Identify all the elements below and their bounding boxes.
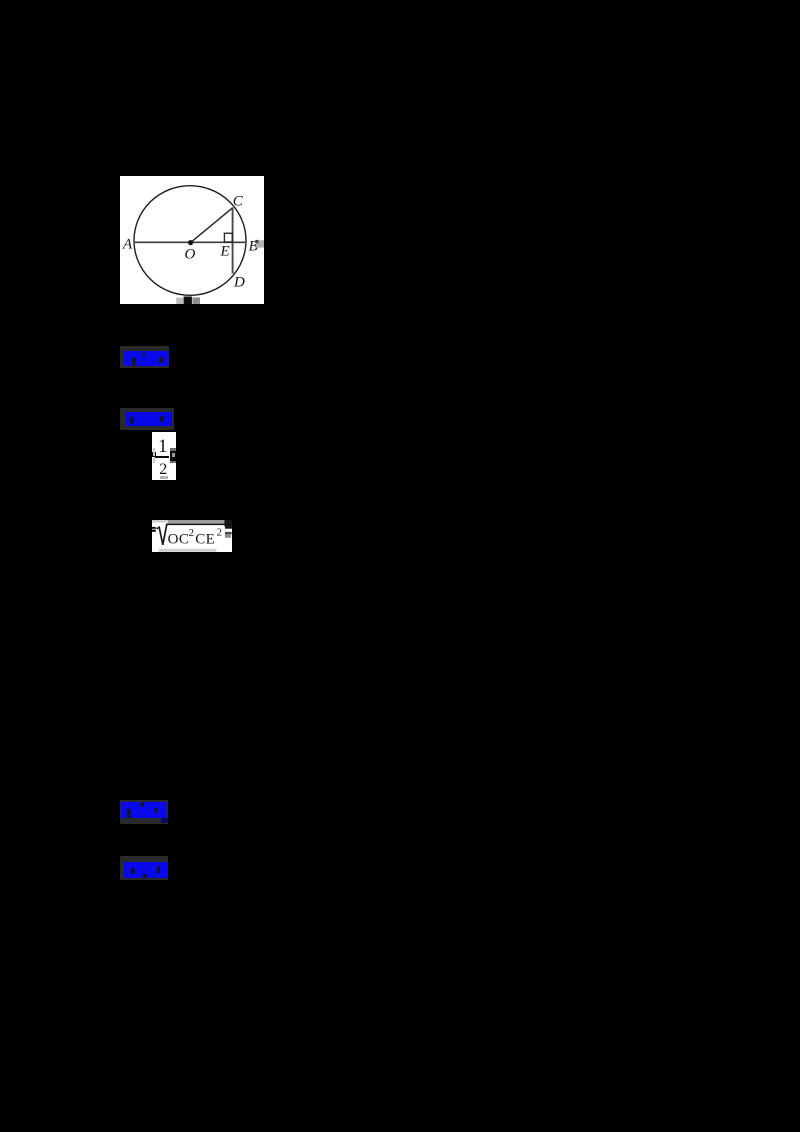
= right (225, 526, 232, 528)
svg-text:D: D (233, 275, 245, 291)
label 4 blue text blob (124, 862, 168, 878)
node O center dot (188, 240, 193, 245)
label 1 blue text blob (124, 351, 169, 366)
equation 1: one half (152, 432, 176, 480)
svg-text:C: C (233, 194, 244, 210)
label 3 highlight bg (120, 800, 168, 824)
label 2 highlight bg (120, 408, 174, 430)
top gray strips (152, 520, 168, 523)
wire radius OC (191, 208, 233, 243)
svg-text:2: 2 (189, 527, 195, 539)
figure image white box (120, 176, 264, 304)
radical sign (157, 524, 167, 545)
svg-text:E: E (220, 244, 230, 260)
bottom gray strip (159, 549, 217, 552)
equation 2: sqrt(OC^2 CE^2) (152, 520, 232, 552)
svg-text:2: 2 (217, 527, 223, 539)
svg-text:CE: CE (195, 532, 215, 548)
bottom mid selection handle (176, 298, 183, 304)
fraction bar (155, 456, 169, 458)
svg-text:O: O (185, 246, 196, 262)
label 1 highlight bg (120, 346, 169, 369)
label 2 blue text blob (126, 412, 172, 426)
black corner blob (224, 520, 232, 526)
wire diameter AB (134, 241, 247, 243)
label 3 blue text blob (121, 802, 167, 818)
svg-text:OC: OC (168, 532, 190, 548)
numerator 1 (152, 440, 174, 455)
right angle mark at E (224, 233, 232, 242)
= left (151, 527, 156, 529)
= mark left of fraction (152, 452, 156, 457)
fraction selection handle marks (153, 448, 155, 456)
circle O (134, 186, 246, 296)
comma block right of fraction (170, 451, 176, 461)
label 4 highlight bg (120, 856, 168, 880)
denominator 2 (152, 463, 175, 478)
svg-text:A: A (122, 236, 133, 252)
vinculum (166, 523, 224, 525)
right mid selection handle (256, 240, 264, 247)
wire chord CD (232, 207, 234, 273)
